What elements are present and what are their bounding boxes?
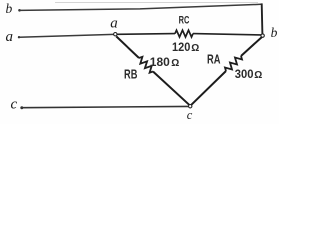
terminal dot c bbox=[20, 106, 23, 109]
node b bbox=[261, 34, 264, 37]
svg-text:Ω: Ω bbox=[171, 58, 179, 69]
wire b (top horizontal) bbox=[20, 4, 262, 10]
resistor RA bbox=[225, 56, 242, 71]
svg-text:a: a bbox=[6, 29, 14, 45]
svg-text:RA: RA bbox=[207, 52, 221, 66]
svg-text:a: a bbox=[110, 16, 118, 32]
wire node a to RB bbox=[116, 36, 139, 58]
svg-text:180: 180 bbox=[150, 55, 170, 69]
svg-text:120: 120 bbox=[172, 40, 190, 54]
terminal dot a bbox=[18, 36, 20, 38]
wire a (left horizontal to node a) bbox=[19, 34, 114, 37]
wire node b to RA bbox=[241, 37, 262, 56]
wire RA to node c bbox=[191, 71, 226, 105]
svg-text:Ω: Ω bbox=[191, 43, 199, 54]
resistor RC bbox=[175, 30, 193, 37]
svg-text:c: c bbox=[11, 97, 18, 113]
svg-text:RB: RB bbox=[124, 67, 137, 81]
svg-text:c: c bbox=[187, 108, 193, 122]
svg-text:RC: RC bbox=[179, 15, 190, 27]
terminal dot b bbox=[18, 9, 21, 12]
wire (right vertical down to node b) bbox=[261, 3, 264, 34]
wire node a to RC bbox=[117, 33, 175, 36]
wire RB to node c bbox=[153, 72, 189, 105]
faint page border line bbox=[55, 2, 258, 4]
node a bbox=[114, 33, 117, 36]
svg-text:b: b bbox=[271, 25, 278, 40]
node c bbox=[189, 105, 192, 108]
resistor RB bbox=[139, 57, 153, 73]
wire RC to node b bbox=[193, 34, 261, 35]
wire c (bottom horizontal to node c) bbox=[22, 106, 188, 107]
svg-text:Ω: Ω bbox=[254, 70, 262, 81]
svg-text:b: b bbox=[6, 1, 13, 16]
svg-text:300: 300 bbox=[235, 67, 254, 81]
